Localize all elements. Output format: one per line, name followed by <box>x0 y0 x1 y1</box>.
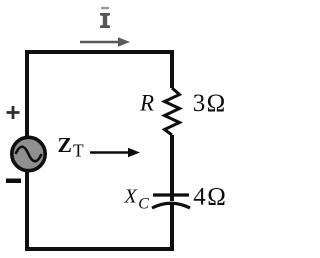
source VS (ac sinusoidal source) <box>12 137 45 170</box>
wire bottom <box>25 247 174 251</box>
label I phasor <box>100 7 110 28</box>
wire right upper <box>170 50 174 88</box>
resistor R (zigzag) <box>165 88 180 135</box>
svg-text:3: 3 <box>193 90 206 117</box>
wire right middle (resistor to capacitor) <box>170 135 174 201</box>
svg-text:Ω: Ω <box>207 183 226 210</box>
impedance arrow ZT (black) <box>90 148 140 158</box>
label 4 ohm <box>193 183 226 210</box>
svg-text:X: X <box>124 186 138 208</box>
svg-text:T: T <box>73 141 84 161</box>
wire right lower (capacitor to bottom) <box>170 204 174 249</box>
svg-text:R: R <box>139 91 154 116</box>
svg-text:Ω: Ω <box>207 90 226 117</box>
wire left upper <box>25 50 29 136</box>
- polarity <box>6 179 21 184</box>
svg-text:Z: Z <box>58 133 72 157</box>
svg-text:4: 4 <box>193 183 206 210</box>
svg-text:C: C <box>138 196 149 213</box>
wire top <box>27 50 172 54</box>
+ polarity <box>7 106 20 119</box>
capacitor XC <box>152 195 190 208</box>
label ZT <box>58 133 85 161</box>
current arrow I (gray) <box>80 37 130 47</box>
label 3 ohm <box>193 90 225 117</box>
label XC <box>124 186 150 213</box>
wire left lower <box>25 171 29 249</box>
